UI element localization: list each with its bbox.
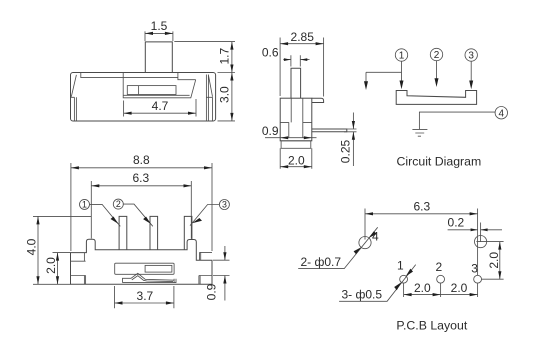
terminal circle 1: [395, 49, 407, 62]
dimension 4.7 (slot width): [124, 99, 196, 117]
interior lines: [280, 98, 312, 138]
terminal circle 4: [495, 107, 507, 120]
svg-text:2.0: 2.0: [44, 257, 58, 274]
pad top-right (big): [475, 236, 487, 248]
terminal circle 2: [430, 48, 442, 61]
left wall slots: [71, 253, 86, 284]
dimension 2.0 (pads 1-2): [404, 281, 441, 297]
bottom block: [281, 141, 311, 149]
svg-text:0.9: 0.9: [205, 283, 219, 300]
pad 2: [437, 275, 445, 283]
wire from pin 3: [469, 61, 473, 89]
svg-text:2.85: 2.85: [291, 30, 315, 44]
svg-text:P.C.B Layout: P.C.B Layout: [396, 319, 467, 333]
svg-text:0.6: 0.6: [262, 46, 279, 60]
svg-text:2: 2: [116, 199, 121, 209]
body outline with humps: [71, 239, 213, 284]
switch body outline: [71, 73, 216, 122]
dimension 3.7 (window width): [115, 286, 174, 308]
dimension 3.0 (body height): [218, 73, 236, 121]
side pin (terminal): [312, 129, 347, 132]
knob stem: [291, 68, 301, 98]
callout 2-phi0.7: [298, 227, 378, 269]
housing body: [280, 98, 312, 141]
svg-text:0.2: 0.2: [448, 216, 465, 230]
arrow at branch: [364, 81, 368, 90]
terminal 2 (pin): [150, 216, 158, 249]
svg-text:3.0: 3.0: [218, 86, 232, 103]
pad 1: [400, 275, 408, 283]
svg-text:4: 4: [372, 230, 379, 244]
svg-text:6.3: 6.3: [132, 171, 149, 185]
svg-text:2: 2: [436, 260, 443, 274]
svg-text:2- ф0.7: 2- ф0.7: [301, 255, 342, 269]
svg-text:3: 3: [468, 51, 474, 62]
wire to terminal 4: [419, 112, 495, 129]
left end cap detail: [71, 75, 77, 121]
svg-text:4.7: 4.7: [152, 99, 169, 113]
wire from pin 1 with branch: [366, 61, 402, 85]
slider slot: [123, 73, 196, 98]
dimension 0.2 (offset): [448, 216, 502, 242]
callout circle 1: [80, 199, 121, 226]
slider window: [127, 86, 176, 95]
callout circle 3: [190, 200, 229, 226]
terminal 3 (pin): [184, 216, 192, 249]
dimension 0.6 (stem width): [262, 46, 310, 67]
svg-text:3- ф0.5: 3- ф0.5: [342, 288, 383, 302]
dimension 2.0 (body width): [280, 148, 312, 169]
dimension 0.25 (pin thickness): [339, 113, 357, 167]
right wall slots: [199, 252, 212, 284]
pad 4 (big, left): [359, 237, 371, 249]
svg-text:Circuit Diagram: Circuit Diagram: [397, 155, 482, 169]
svg-text:2.0: 2.0: [487, 252, 501, 269]
svg-text:1.7: 1.7: [218, 48, 232, 65]
svg-text:3: 3: [222, 200, 227, 210]
callout 3-phi0.5: [339, 265, 416, 302]
dimension 8.8 (overall width): [71, 153, 212, 251]
dimension 2.0 (wall height): [44, 253, 70, 285]
svg-text:2.0: 2.0: [414, 281, 431, 295]
svg-text:3.7: 3.7: [137, 289, 154, 303]
svg-text:1: 1: [82, 200, 87, 210]
knob (side view): [145, 42, 172, 73]
ground symbol: [412, 129, 427, 136]
dimension 2.0 (right, vertical): [476, 242, 503, 280]
svg-text:4.0: 4.0: [25, 238, 39, 255]
svg-text:0.9: 0.9: [262, 124, 279, 138]
dimension 4.0 (height): [25, 216, 92, 284]
dimension 6.3 (terminal span): [91, 171, 191, 239]
svg-text:4: 4: [499, 108, 505, 119]
svg-text:1: 1: [397, 259, 404, 273]
inner lip line: [81, 73, 196, 80]
dimension 1.7 (knob height): [174, 42, 235, 73]
dimension 0.9 (slot gap, right): [205, 246, 230, 301]
callout circle 2: [113, 199, 153, 226]
spring clip strip: [123, 273, 177, 282]
dimension 1.5 (knob width): [145, 19, 173, 41]
pad 3: [474, 275, 482, 283]
side flange: [312, 98, 324, 102]
terminal circle 3: [465, 49, 477, 62]
terminal seat line with arrows (0.9 ref): [265, 136, 317, 139]
svg-text:8.8: 8.8: [133, 153, 150, 167]
window insert: [145, 265, 172, 272]
dimension 2.85 (body+flange width): [280, 30, 324, 96]
bottom window: [115, 263, 174, 274]
arrow pin1: [400, 81, 404, 90]
svg-text:1.5: 1.5: [151, 19, 168, 33]
svg-text:2.0: 2.0: [451, 281, 468, 295]
right end cap detail: [206, 75, 212, 121]
dimension 6.3 (pad pitch): [365, 199, 478, 275]
svg-text:0.25: 0.25: [339, 139, 353, 163]
switch contact bar: [396, 91, 476, 105]
svg-text:6.3: 6.3: [413, 199, 430, 213]
terminal 1 (pin): [119, 216, 127, 249]
svg-text:2: 2: [434, 50, 440, 61]
svg-text:2.0: 2.0: [288, 153, 305, 167]
dimension 0.9 (seat depth) text: [262, 124, 279, 138]
dimension 2.0 (pads 2-3): [441, 281, 478, 297]
svg-text:1: 1: [399, 51, 405, 62]
wire from pin 2: [435, 61, 439, 87]
